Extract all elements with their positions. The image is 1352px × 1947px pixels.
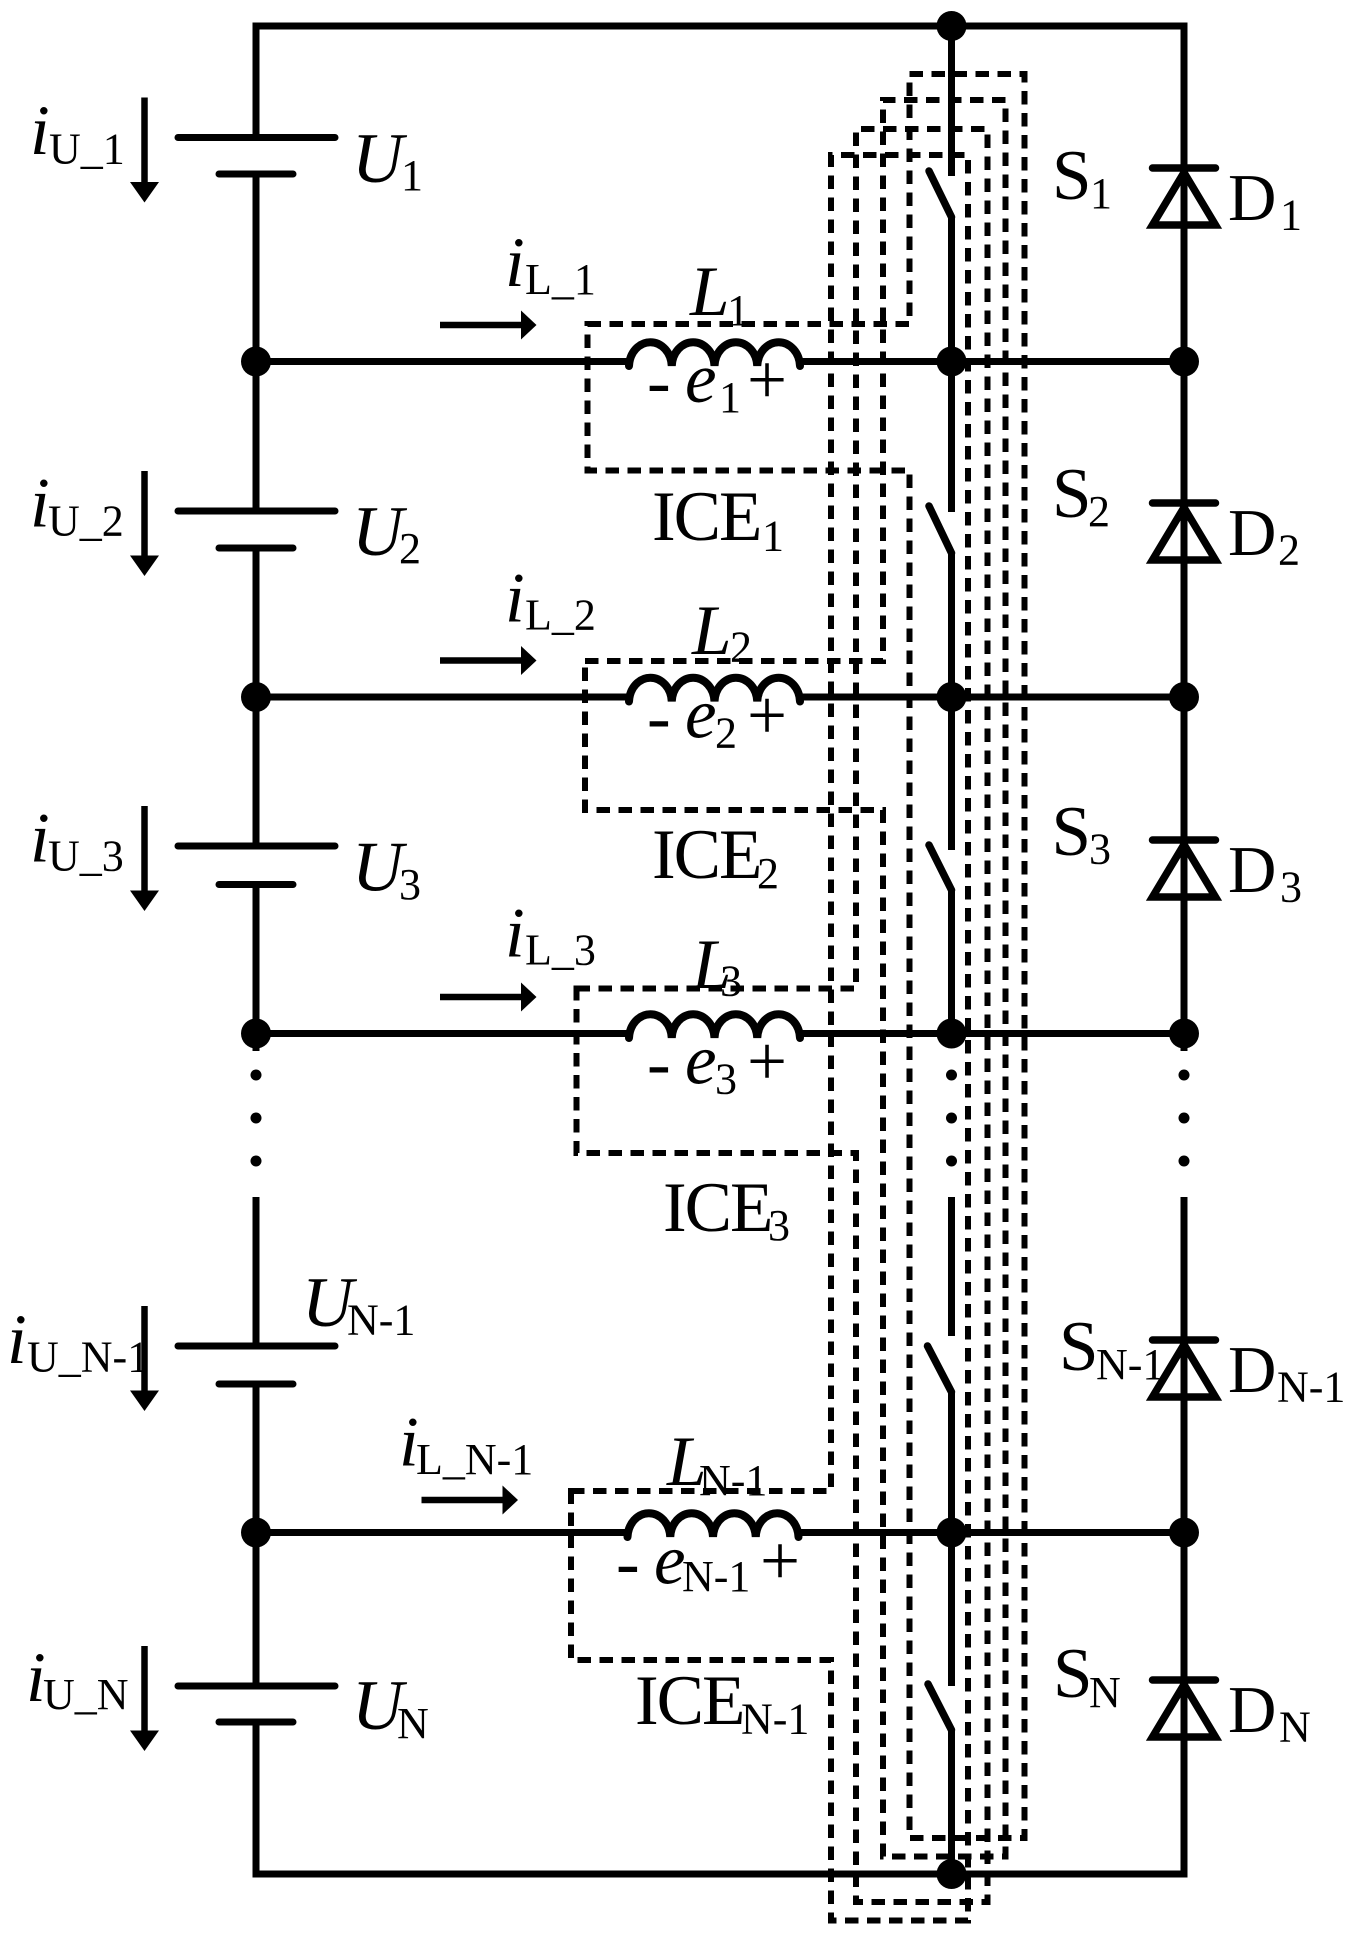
- svg-text:e: e: [685, 676, 717, 754]
- svg-text:U_N-1: U_N-1: [27, 1333, 149, 1382]
- svg-text:2: 2: [715, 709, 737, 758]
- inductor L3: [629, 1014, 800, 1038]
- svg-text:3: 3: [715, 1055, 737, 1104]
- battery UN-1: [178, 1346, 335, 1384]
- svg-text:ICE: ICE: [652, 816, 760, 894]
- svg-text:L_3: L_3: [525, 926, 596, 975]
- svg-text:3: 3: [1280, 863, 1302, 912]
- svg-text:1: 1: [401, 151, 423, 200]
- svg-text:i: i: [30, 800, 50, 878]
- svg-text:1: 1: [762, 512, 784, 561]
- ellipsis dots switch column: [946, 1070, 957, 1081]
- svg-text:i: i: [505, 560, 525, 638]
- diode D2: [1153, 503, 1216, 560]
- node rowN-1 switch column: [937, 1518, 967, 1548]
- wire right rail segments: [1181, 23, 1188, 1878]
- svg-text:N: N: [1089, 1668, 1121, 1717]
- svg-text:U_N: U_N: [43, 1670, 129, 1719]
- svg-text:N-1: N-1: [741, 1695, 809, 1744]
- svg-text:D: D: [1228, 161, 1276, 235]
- ICE2 coupling loop: [585, 100, 1006, 1857]
- svg-text:e: e: [685, 340, 717, 418]
- svg-text:i: i: [30, 465, 50, 543]
- node top rail junction: [937, 11, 967, 41]
- ICE1 coupling loop (dashed box around L1 and winding loop): [588, 74, 1025, 1838]
- svg-text:3: 3: [768, 1201, 790, 1250]
- svg-text:N-1: N-1: [682, 1552, 750, 1601]
- arrow iL_2 current: [440, 657, 522, 664]
- svg-text:3: 3: [399, 860, 421, 909]
- node row2 left: [241, 682, 271, 712]
- svg-text:i: i: [7, 1301, 27, 1379]
- battery U1: [178, 138, 335, 175]
- node row1 switch column: [937, 347, 967, 377]
- wire row 2 bus: [256, 694, 1184, 701]
- svg-text:+: +: [747, 677, 787, 755]
- svg-text:1: 1: [1280, 191, 1302, 240]
- svg-text:i: i: [505, 895, 525, 973]
- arrow iL_N-1 current: [422, 1497, 504, 1504]
- ellipsis dots right rail: [1179, 1070, 1190, 1081]
- svg-text:i: i: [505, 224, 525, 302]
- svg-text:L: L: [689, 253, 730, 331]
- svg-text:+: +: [747, 1023, 787, 1101]
- svg-text:S: S: [1053, 1635, 1093, 1713]
- svg-text:ICE: ICE: [652, 478, 760, 556]
- battery U2: [178, 511, 335, 548]
- svg-text:U: U: [352, 120, 408, 198]
- wire row 3 bus: [256, 1030, 1184, 1037]
- ICE3 coupling loop: [577, 129, 988, 1902]
- svg-text:ICE: ICE: [635, 1662, 743, 1740]
- node row1 left: [241, 347, 271, 377]
- svg-text:2: 2: [757, 849, 779, 898]
- svg-text:N-1: N-1: [699, 1456, 767, 1505]
- svg-text:1: 1: [1090, 169, 1112, 218]
- svg-text:2: 2: [1088, 487, 1110, 536]
- svg-text:-: -: [616, 1524, 640, 1602]
- battery U3: [178, 846, 335, 885]
- arrow iU_2 current: [141, 471, 148, 558]
- battery UN: [178, 1686, 335, 1722]
- node row3 left: [241, 1019, 271, 1049]
- node row3 switch column: [937, 1019, 967, 1049]
- node row1 right: [1169, 347, 1199, 377]
- svg-text:2: 2: [1278, 526, 1300, 575]
- svg-text:i: i: [30, 92, 50, 170]
- arrow iL_1 current: [440, 322, 522, 329]
- arrow iU_N-1 current: [141, 1306, 148, 1393]
- svg-text:S: S: [1052, 455, 1092, 533]
- wire row 1 bus: [256, 358, 1184, 365]
- switch S3 blade: [929, 845, 952, 890]
- svg-text:N: N: [1279, 1703, 1311, 1752]
- wire switch column segments: [948, 26, 955, 1874]
- svg-text:3: 3: [720, 957, 742, 1006]
- svg-text:+: +: [760, 1523, 800, 1601]
- arrow iU_3 current: [141, 806, 148, 893]
- node row2 right: [1169, 682, 1199, 712]
- diode D3: [1153, 840, 1216, 897]
- switch SN blade: [928, 1684, 952, 1730]
- svg-text:U_1: U_1: [49, 125, 125, 174]
- svg-text:D: D: [1228, 1333, 1276, 1407]
- svg-text:S: S: [1059, 1308, 1099, 1386]
- wire left rail segments: [253, 23, 260, 1878]
- svg-text:N-1: N-1: [1277, 1363, 1345, 1412]
- svg-text:-: -: [647, 343, 671, 421]
- svg-text:U_3: U_3: [48, 832, 124, 881]
- svg-text:e: e: [685, 1022, 717, 1100]
- svg-text:U_2: U_2: [48, 497, 124, 546]
- svg-text:L_1: L_1: [525, 255, 596, 304]
- svg-text:2: 2: [730, 623, 752, 672]
- svg-text:N-1: N-1: [347, 1296, 415, 1345]
- svg-text:-: -: [647, 1025, 671, 1103]
- wire row N-1 bus: [256, 1529, 1184, 1536]
- switch S1 blade: [929, 171, 952, 217]
- svg-text:L: L: [691, 592, 732, 670]
- arrow iU_1 current: [141, 98, 148, 185]
- svg-text:L_2: L_2: [525, 591, 596, 640]
- inductor LN-1: [628, 1513, 799, 1537]
- wire top rail: [256, 23, 1184, 30]
- inductor L2: [629, 678, 800, 702]
- svg-text:+: +: [747, 342, 787, 420]
- wire bottom rail: [256, 1871, 1184, 1878]
- node rowN-1 left: [241, 1518, 271, 1548]
- arrow iU_N current: [141, 1646, 148, 1733]
- node bottom rail junction: [937, 1859, 967, 1889]
- diode DN: [1153, 1680, 1216, 1737]
- svg-text:D: D: [1228, 1673, 1276, 1747]
- svg-text:N-1: N-1: [1096, 1340, 1164, 1389]
- svg-text:1: 1: [727, 286, 749, 335]
- svg-text:D: D: [1228, 833, 1276, 907]
- svg-text:e: e: [654, 1522, 686, 1600]
- diode DN-1: [1153, 1340, 1216, 1397]
- arrow iL_3 current: [440, 994, 522, 1001]
- switch S2 blade: [929, 506, 952, 553]
- svg-text:3: 3: [1089, 825, 1111, 874]
- switch SN-1 blade: [928, 1346, 952, 1392]
- svg-text:2: 2: [399, 524, 421, 573]
- node row2 switch column: [937, 682, 967, 712]
- svg-text:N: N: [397, 1699, 429, 1748]
- svg-text:S: S: [1052, 137, 1092, 215]
- svg-text:1: 1: [719, 373, 741, 422]
- node rowN-1 right: [1169, 1518, 1199, 1548]
- svg-text:ICE: ICE: [663, 1169, 771, 1247]
- node row3 right: [1169, 1019, 1199, 1049]
- ellipsis dots left rail: [251, 1070, 262, 1081]
- svg-text:L_N-1: L_N-1: [416, 1435, 533, 1484]
- svg-text:S: S: [1052, 793, 1092, 871]
- diode D1: [1153, 168, 1216, 225]
- svg-text:-: -: [647, 679, 671, 757]
- inductor L1: [629, 342, 800, 366]
- svg-text:D: D: [1228, 496, 1276, 570]
- ICEN-1 coupling loop: [571, 155, 968, 1921]
